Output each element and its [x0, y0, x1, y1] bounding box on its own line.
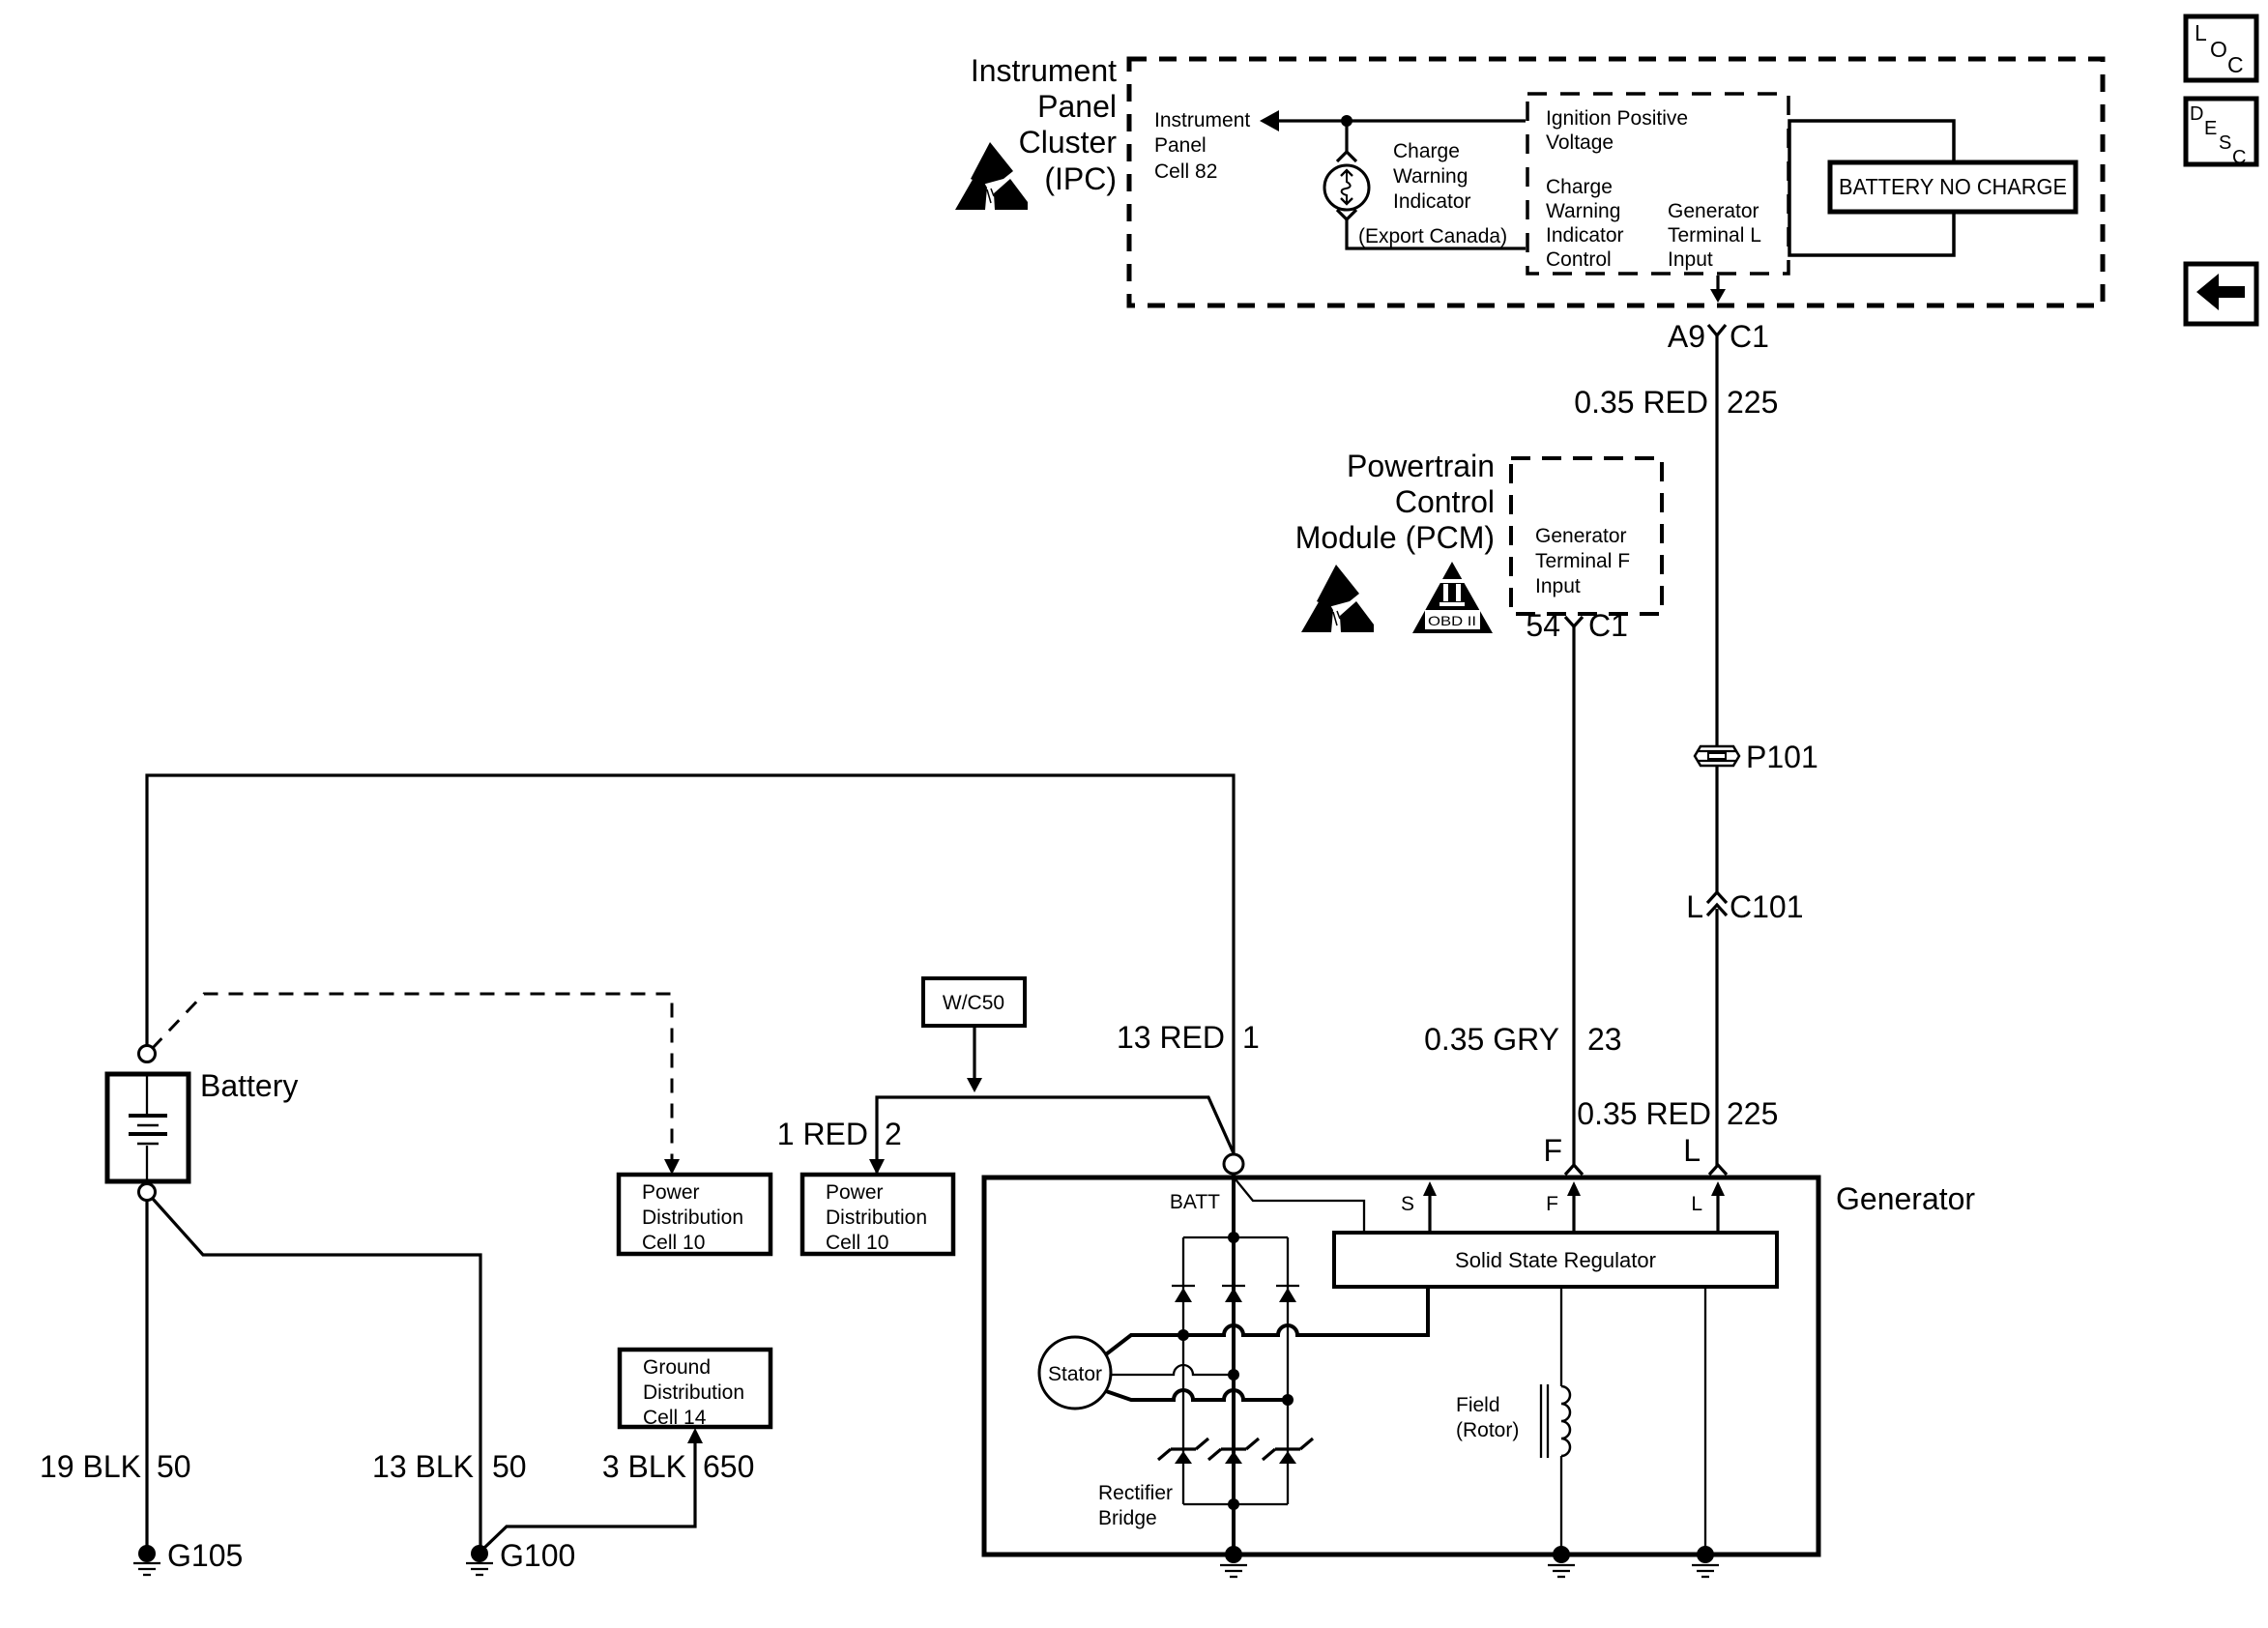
label 0.35 RED 225 (lower) — [1577, 1096, 1778, 1131]
svg-text:Ground: Ground — [643, 1356, 711, 1379]
arrow leaving IPC at terminal L output — [1710, 276, 1726, 303]
Generator Terminal L Input label — [1668, 200, 1761, 271]
svg-text:P101: P101 — [1746, 740, 1818, 774]
svg-text:L: L — [1686, 889, 1703, 924]
svg-text:G100: G100 — [500, 1538, 575, 1573]
regulator L pin arrow — [1691, 1181, 1725, 1233]
svg-text:225: 225 — [1727, 385, 1778, 420]
svg-text:Bridge: Bridge — [1098, 1507, 1157, 1529]
Power Distribution Cell 10 box (left) — [619, 1175, 771, 1254]
regulator S pin arrow — [1401, 1181, 1437, 1233]
ESD static-sensitive symbol (IPC) — [955, 142, 1028, 210]
BATTERY NO CHARGE message box — [1830, 162, 2076, 212]
Power Distribution Cell 10 box (right) — [802, 1175, 953, 1254]
svg-text:BATT: BATT — [1170, 1191, 1220, 1213]
battery cell symbol — [129, 1074, 167, 1181]
arrowhead into ground distribution cell 14 — [687, 1428, 703, 1443]
svg-text:Cell 10: Cell 10 — [642, 1232, 705, 1254]
svg-text:Panel: Panel — [1037, 89, 1117, 124]
wire 1 RED 2 to power distribution — [877, 1097, 1234, 1173]
stator — [1039, 1337, 1111, 1409]
W/C50 box — [923, 978, 1025, 1026]
ground G100 — [466, 1538, 575, 1575]
svg-text:Indicator: Indicator — [1393, 190, 1471, 213]
svg-text:Warning: Warning — [1546, 200, 1620, 222]
Instrument Panel Cell 82 label — [1154, 109, 1250, 183]
back-arrow nav box — [2186, 264, 2256, 324]
svg-text:S: S — [1401, 1193, 1414, 1215]
Field (Rotor) label — [1456, 1394, 1519, 1441]
label 0.35 RED 225 (upper) — [1574, 385, 1778, 420]
svg-text:Warning: Warning — [1393, 165, 1468, 188]
svg-text:650: 650 — [703, 1449, 754, 1484]
svg-text:Battery: Battery — [200, 1068, 298, 1103]
svg-text:Input: Input — [1668, 248, 1713, 271]
wire 3 BLK 650 from ground distribution to G100 — [483, 1441, 695, 1549]
inner dashed box: ignition positive voltage / control inputs — [1527, 94, 1788, 274]
label 13 RED 1 — [1117, 1020, 1260, 1055]
wire to IPC cell 82 with left arrowhead — [1260, 110, 1526, 131]
svg-text:Terminal L: Terminal L — [1668, 224, 1761, 247]
svg-text:Cluster: Cluster — [1019, 125, 1118, 160]
connector chevron above indicator — [1337, 152, 1356, 161]
battery negative terminal — [139, 1184, 156, 1201]
junction phase 2 on center bridge leg — [1228, 1369, 1239, 1381]
svg-text:3 BLK: 3 BLK — [602, 1449, 686, 1484]
zener diode middle — [1208, 1439, 1259, 1464]
svg-text:Generator: Generator — [1836, 1181, 1975, 1216]
svg-text:Generator: Generator — [1535, 525, 1627, 547]
LOC nav box — [2186, 16, 2256, 80]
IPC label — [971, 53, 1118, 196]
svg-text:Generator: Generator — [1668, 200, 1759, 222]
label 1 RED 2 — [777, 1117, 902, 1151]
Charge Warning Indicator label — [1393, 140, 1471, 213]
svg-text:C101: C101 — [1730, 889, 1804, 924]
arrowhead into power distribution cell 10 — [664, 1159, 680, 1175]
svg-text:Ignition Positive: Ignition Positive — [1546, 107, 1688, 130]
in-line connector C101 — [1686, 889, 1803, 924]
svg-text:Charge: Charge — [1546, 176, 1613, 198]
BATT feed into rectifier bridge — [1232, 1174, 1236, 1555]
svg-text:Distribution: Distribution — [642, 1206, 743, 1229]
svg-text:E: E — [2204, 118, 2217, 139]
svg-text:C: C — [2227, 52, 2244, 77]
battery box — [107, 1074, 189, 1181]
svg-text:C1: C1 — [1730, 319, 1769, 354]
label 0.35 GRY 23 — [1424, 1022, 1622, 1057]
Ignition Positive Voltage label — [1546, 107, 1688, 154]
svg-text:Power: Power — [826, 1181, 884, 1204]
svg-text:Distribution: Distribution — [643, 1381, 744, 1404]
Rectifier Bridge label — [1098, 1482, 1173, 1529]
wire 0.35 RED 225 from A9 C1 to P101 — [1715, 335, 1718, 746]
wire loop rectangle to BATTERY NO CHARGE — [1789, 121, 1954, 255]
svg-text:W/C50: W/C50 — [943, 992, 1004, 1014]
ground G105 — [133, 1538, 243, 1575]
svg-text:L: L — [1683, 1133, 1701, 1168]
dashed feed wire from battery to power distribution — [152, 994, 672, 1160]
ESD static-sensitive symbol (PCM) — [1301, 565, 1374, 632]
sense wire BATT to regulator — [1236, 1179, 1364, 1235]
svg-text:13 BLK: 13 BLK — [372, 1449, 474, 1484]
svg-text:D: D — [2190, 103, 2203, 125]
battery positive terminal — [139, 1046, 156, 1062]
junction phase 1 on left bridge leg — [1178, 1329, 1189, 1341]
wire from W/C50 down — [967, 1026, 982, 1092]
svg-text:F: F — [1543, 1133, 1562, 1168]
svg-text:23: 23 — [1587, 1022, 1622, 1057]
Generator Terminal F Input label — [1535, 525, 1630, 597]
svg-text:Instrument: Instrument — [971, 53, 1117, 88]
Instrument Panel Cluster (IPC) dashed box — [1129, 59, 2103, 305]
svg-text:Panel: Panel — [1154, 134, 1207, 157]
svg-text:Solid State Regulator: Solid State Regulator — [1455, 1248, 1656, 1272]
svg-text:F: F — [1546, 1193, 1558, 1215]
field rotor coil — [1541, 1384, 1570, 1458]
svg-text:0.35 GRY: 0.35 GRY — [1424, 1022, 1559, 1057]
label 3 BLK 650 — [602, 1449, 755, 1484]
generator box — [984, 1177, 1818, 1555]
svg-text:0.35 RED: 0.35 RED — [1577, 1096, 1711, 1131]
svg-text:Voltage: Voltage — [1546, 131, 1614, 154]
wire from P101 to C101 — [1715, 766, 1718, 893]
svg-text:Distribution: Distribution — [826, 1206, 927, 1229]
rectifier bridge frame — [1183, 1237, 1288, 1504]
svg-text:50: 50 — [157, 1449, 191, 1484]
svg-text:L: L — [2195, 20, 2207, 45]
Charge Warning Indicator Control label — [1546, 176, 1624, 271]
svg-text:Instrument: Instrument — [1154, 109, 1250, 131]
splice P101 — [1695, 740, 1818, 774]
label 19 BLK 50 — [40, 1449, 191, 1484]
diode right — [1276, 1286, 1299, 1302]
svg-text:Power: Power — [642, 1181, 700, 1204]
BATT terminal node — [1224, 1154, 1243, 1174]
zener diode left — [1158, 1439, 1208, 1464]
Powertrain Control Module (PCM) label — [1295, 449, 1495, 555]
svg-text:13 RED: 13 RED — [1117, 1020, 1225, 1055]
svg-text:50: 50 — [492, 1449, 527, 1484]
svg-text:C: C — [2232, 147, 2246, 168]
svg-text:G105: G105 — [167, 1538, 243, 1573]
svg-text:Terminal F: Terminal F — [1535, 550, 1630, 572]
svg-text:Field: Field — [1456, 1394, 1500, 1416]
svg-text:2: 2 — [885, 1117, 902, 1151]
connector chevron below indicator — [1337, 210, 1356, 219]
connector A9 C1 — [1668, 319, 1769, 354]
regulator L internal wire to case ground — [1704, 1287, 1706, 1555]
diode left — [1172, 1286, 1195, 1302]
svg-text:Cell 14: Cell 14 — [643, 1407, 707, 1429]
svg-text:Module (PCM): Module (PCM) — [1295, 520, 1495, 555]
svg-text:Input: Input — [1535, 575, 1581, 597]
svg-text:Powertrain: Powertrain — [1347, 449, 1495, 483]
regulator F pin arrow — [1546, 1181, 1581, 1233]
wire 0.35 RED 225 from C101 to generator L terminal — [1715, 909, 1718, 1166]
zener diode right — [1263, 1439, 1313, 1464]
wire 13 BLK 50 battery to G100 — [153, 1199, 480, 1547]
generator case ground (L) — [1692, 1546, 1719, 1577]
svg-text:Cell 10: Cell 10 — [826, 1232, 888, 1254]
svg-text:Charge: Charge — [1393, 140, 1460, 162]
svg-text:OBD II: OBD II — [1428, 613, 1476, 628]
label 13 BLK 50 — [372, 1449, 527, 1484]
wire from indicator to ignition voltage box — [1347, 219, 1526, 248]
svg-text:(Export Canada): (Export Canada) — [1358, 225, 1507, 247]
svg-text:O: O — [2210, 37, 2227, 62]
svg-text:0.35 RED: 0.35 RED — [1574, 385, 1708, 420]
stator phase 2 wire — [1111, 1365, 1234, 1375]
wire 0.35 GRY 23 from 54 C1 to generator F terminal — [1572, 626, 1575, 1166]
charge warning indicator symbol — [1324, 165, 1369, 210]
svg-text:L: L — [1691, 1193, 1702, 1215]
connector 54 C1 — [1526, 608, 1628, 643]
OBD II triangle symbol — [1412, 562, 1493, 633]
svg-text:(Rotor): (Rotor) — [1456, 1419, 1519, 1441]
junction node on IPC wire — [1341, 115, 1352, 127]
svg-text:Stator: Stator — [1048, 1363, 1102, 1385]
svg-text:A9: A9 — [1668, 319, 1705, 354]
svg-text:Control: Control — [1546, 248, 1612, 271]
svg-text:S: S — [2219, 132, 2231, 154]
main feed wire battery to generator BATT — [147, 775, 1234, 1153]
field coil wire to case ground — [1560, 1456, 1562, 1555]
terminal F chevron at generator box — [1565, 1165, 1583, 1175]
svg-text:Cell 82: Cell 82 — [1154, 160, 1217, 183]
junction phase 3 on right bridge leg — [1282, 1394, 1294, 1406]
svg-text:19 BLK: 19 BLK — [40, 1449, 141, 1484]
DESC nav box — [2186, 99, 2256, 168]
svg-text:54: 54 — [1526, 608, 1560, 643]
stator phase 3 wire — [1106, 1390, 1288, 1400]
field rotor coil wire from regulator — [1560, 1287, 1562, 1386]
arrowhead into power distribution (right box) — [869, 1159, 885, 1175]
generator case ground (field) — [1548, 1546, 1575, 1577]
svg-text:225: 225 — [1727, 1096, 1778, 1131]
wire 19 BLK 50 battery to G105 — [145, 1201, 148, 1547]
svg-text:1 RED: 1 RED — [777, 1117, 868, 1151]
PCM dashed box: generator terminal F input — [1511, 458, 1662, 614]
Ground Distribution Cell 14 box — [620, 1350, 771, 1429]
svg-text:BATTERY NO CHARGE: BATTERY NO CHARGE — [1839, 174, 2067, 199]
svg-text:Rectifier: Rectifier — [1098, 1482, 1173, 1504]
terminal L chevron at generator box — [1709, 1165, 1727, 1175]
solid state regulator box — [1334, 1233, 1777, 1287]
junction at bridge top — [1228, 1232, 1239, 1243]
generator case ground (center) — [1220, 1546, 1247, 1577]
svg-text:Indicator: Indicator — [1546, 224, 1624, 247]
svg-text:Control: Control — [1395, 484, 1495, 519]
stator phase 1 wire to regulator S — [1106, 1289, 1428, 1354]
svg-text:C1: C1 — [1588, 608, 1628, 643]
junction at bridge bottom — [1228, 1498, 1239, 1510]
svg-text:1: 1 — [1242, 1020, 1260, 1055]
svg-text:(IPC): (IPC) — [1044, 161, 1117, 196]
diode middle — [1222, 1286, 1245, 1302]
wire from junction down to indicator — [1345, 121, 1348, 154]
